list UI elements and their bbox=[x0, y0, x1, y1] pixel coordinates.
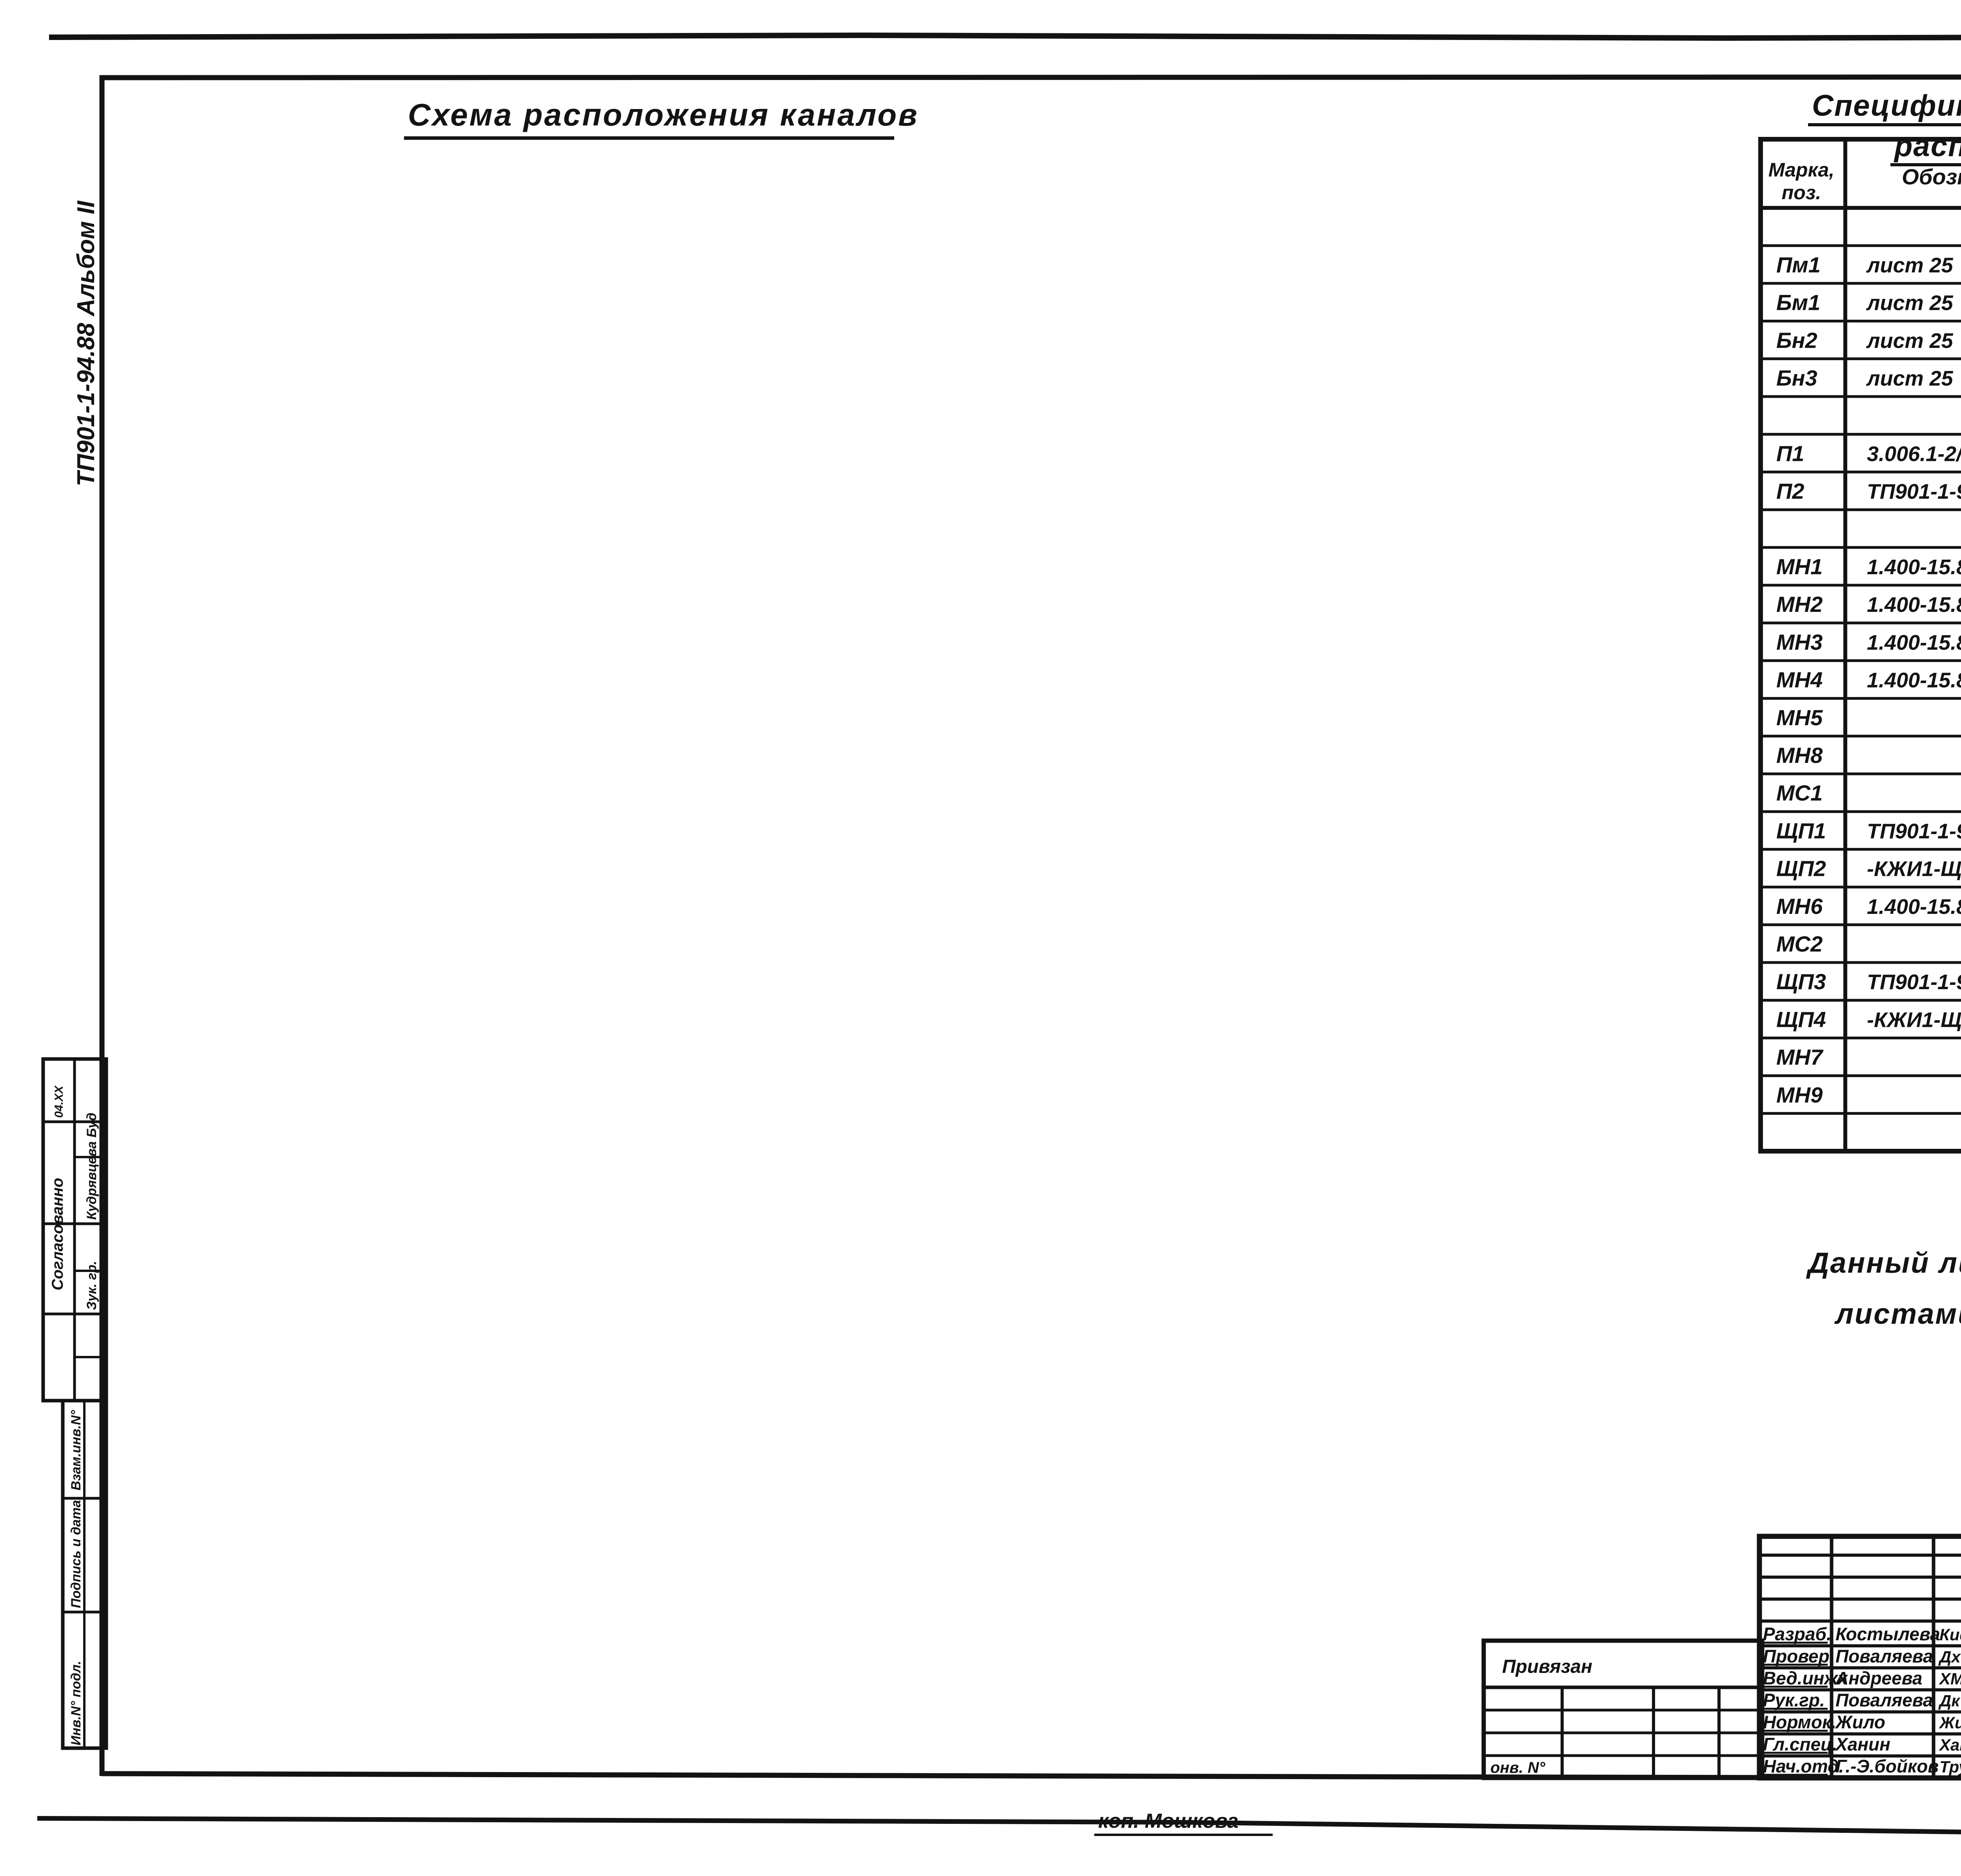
svg-text:ЩП4: ЩП4 bbox=[1776, 1007, 1826, 1032]
svg-text:Нач.отд.: Нач.отд. bbox=[1763, 1756, 1844, 1776]
svg-text:Жило: Жило bbox=[1835, 1712, 1885, 1732]
svg-text:ЩП3: ЩП3 bbox=[1776, 969, 1826, 994]
svg-text:ЩП2: ЩП2 bbox=[1776, 856, 1826, 881]
svg-text:Трух: Трух bbox=[1939, 1758, 1961, 1776]
svg-text:П1: П1 bbox=[1776, 441, 1804, 466]
svg-text:Ханне: Ханне bbox=[1939, 1736, 1961, 1754]
svg-text:3.006.1-2/82, в.1-2: 3.006.1-2/82, в.1-2 bbox=[1867, 442, 1961, 466]
svg-text:поз.: поз. bbox=[1782, 182, 1821, 204]
svg-text:-КЖИ1-ЩП2: -КЖИ1-ЩП2 bbox=[1867, 857, 1961, 881]
svg-text:ХМ.: ХМ. bbox=[1939, 1669, 1961, 1688]
svg-text:МС2: МС2 bbox=[1776, 932, 1823, 956]
svg-text:ТП901-1-94.88-КЖИ1-ЩП1: ТП901-1-94.88-КЖИ1-ЩП1 bbox=[1867, 819, 1961, 843]
svg-text:Жи,-: Жи,- bbox=[1939, 1714, 1961, 1732]
svg-text:-КЖИ1-ЩП4: -КЖИ1-ЩП4 bbox=[1867, 1008, 1961, 1032]
svg-text:ЩП1: ЩП1 bbox=[1776, 818, 1826, 843]
svg-text:Взам.инв.N°: Взам.инв.N° bbox=[69, 1410, 84, 1490]
svg-text:Обозначение: Обозначение bbox=[1902, 164, 1961, 189]
svg-text:Г.-Э.бойков: Г.-Э.бойков bbox=[1835, 1756, 1939, 1776]
svg-text:Пм1: Пм1 bbox=[1776, 252, 1821, 277]
svg-text:1.400-15.81.550-04: 1.400-15.81.550-04 bbox=[1867, 593, 1961, 617]
svg-text:Ханин: Ханин bbox=[1834, 1734, 1890, 1754]
svg-text:Схема расположения каналов: Схема расположения каналов bbox=[408, 97, 919, 132]
svg-text:1.400-15.81.140-14: 1.400-15.81.140-14 bbox=[1867, 895, 1961, 919]
svg-text:МН7: МН7 bbox=[1776, 1045, 1824, 1070]
svg-text:Разраб.: Разраб. bbox=[1763, 1624, 1832, 1644]
svg-text:МН5: МН5 bbox=[1776, 705, 1823, 730]
svg-text:Подпись и дата: Подпись и дата bbox=[69, 1500, 84, 1608]
svg-text:МН1: МН1 bbox=[1776, 554, 1823, 579]
svg-text:Согласованно: Согласованно bbox=[49, 1178, 66, 1290]
svg-text:расположения каналов: расположения каналов bbox=[1894, 129, 1961, 163]
svg-text:04.ХХ: 04.ХХ bbox=[53, 1085, 65, 1118]
svg-text:онв. N°: онв. N° bbox=[1490, 1759, 1546, 1776]
svg-text:Дх: Дх bbox=[1938, 1647, 1961, 1666]
svg-text:Марка,: Марка, bbox=[1768, 159, 1834, 181]
svg-text:1.400-15.81.110-11: 1.400-15.81.110-11 bbox=[1867, 631, 1961, 654]
svg-text:лист 25: лист 25 bbox=[1866, 291, 1954, 315]
svg-text:ТП901-1-94.88 Альбом II: ТП901-1-94.88 Альбом II bbox=[73, 200, 100, 486]
svg-text:МН2: МН2 bbox=[1776, 592, 1823, 617]
svg-text:Гл.спец.: Гл.спец. bbox=[1763, 1734, 1837, 1754]
svg-text:МН8: МН8 bbox=[1776, 743, 1823, 768]
svg-text:Данный лист рассматривать: Данный лист рассматривать совместно с bbox=[1806, 1246, 1961, 1279]
svg-text:коп. Мошкова: коп. Мошкова bbox=[1098, 1810, 1239, 1832]
svg-text:Нормок.: Нормок. bbox=[1763, 1712, 1836, 1732]
svg-text:Провер.: Провер. bbox=[1763, 1646, 1834, 1666]
svg-text:1.400-15.81.550-06: 1.400-15.81.550-06 bbox=[1867, 555, 1961, 579]
svg-text:Рук.гр.: Рук.гр. bbox=[1763, 1690, 1825, 1710]
svg-text:МН3: МН3 bbox=[1776, 630, 1823, 654]
svg-text:Бм1: Бм1 bbox=[1776, 290, 1820, 315]
svg-text:листами 23,24,25.: листами 23,24,25. bbox=[1834, 1297, 1961, 1330]
svg-text:Инв.N° подл.: Инв.N° подл. bbox=[69, 1661, 84, 1745]
svg-text:МН6: МН6 bbox=[1776, 894, 1823, 919]
svg-text:Привязан: Привязан bbox=[1502, 1656, 1592, 1677]
svg-text:Зук. гр.: Зук. гр. bbox=[84, 1261, 99, 1310]
svg-text:Поваляева: Поваляева bbox=[1835, 1690, 1933, 1710]
svg-text:МН9: МН9 bbox=[1776, 1083, 1823, 1107]
svg-text:ТП901-1-94.88-КЖИ1-ПТо-5б-1: ТП901-1-94.88-КЖИ1-ПТо-5б-1 bbox=[1867, 480, 1961, 504]
svg-text:Андреева: Андреева bbox=[1835, 1668, 1922, 1688]
svg-text:МС1: МС1 bbox=[1776, 781, 1823, 805]
svg-text:лист 25: лист 25 bbox=[1866, 253, 1954, 277]
svg-text:Дк: Дк bbox=[1938, 1692, 1960, 1710]
svg-text:Бн3: Бн3 bbox=[1776, 366, 1817, 390]
svg-text:МН4: МН4 bbox=[1776, 668, 1823, 692]
svg-text:Кудрявцева Буд: Кудрявцева Буд bbox=[84, 1113, 99, 1220]
svg-text:Бн2: Бн2 bbox=[1776, 328, 1817, 353]
svg-text:лист 25: лист 25 bbox=[1866, 367, 1954, 390]
svg-text:П2: П2 bbox=[1776, 479, 1804, 504]
svg-text:Спецификация элементов к: Спецификация элементов к схеме bbox=[1812, 89, 1961, 122]
svg-text:ТП901-1-94.88-КЖИ1-ЩП3: ТП901-1-94.88-КЖИ1-ЩП3 bbox=[1867, 970, 1961, 994]
svg-text:1.400-15.81.110-04: 1.400-15.81.110-04 bbox=[1867, 669, 1961, 692]
svg-text:Костылева: Костылева bbox=[1835, 1624, 1940, 1644]
svg-text:лист 25: лист 25 bbox=[1866, 329, 1954, 353]
svg-text:Поваляева: Поваляева bbox=[1835, 1646, 1933, 1666]
svg-text:Киф-: Киф- bbox=[1939, 1625, 1961, 1644]
